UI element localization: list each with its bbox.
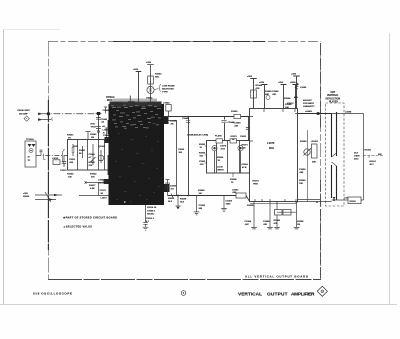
svg-text:C1080: C1080 bbox=[299, 169, 306, 171]
svg-text:R1041: R1041 bbox=[90, 133, 97, 136]
left bumps bbox=[105, 137, 110, 143]
page right edge bbox=[389, 33, 391, 305]
svg-text:R1B: R1B bbox=[91, 124, 96, 126]
ground drop x=196.5 bbox=[194, 196, 200, 215]
stub above ladder bbox=[86, 132, 91, 141]
connector box bbox=[25, 141, 36, 167]
svg-text:47K: 47K bbox=[256, 87, 260, 90]
arrowheads bbox=[38, 113, 43, 116]
drop x=176 bbox=[169, 121, 177, 196]
svg-text:C1052: C1052 bbox=[178, 149, 185, 151]
svg-text:R1059: R1059 bbox=[180, 199, 187, 201]
svg-text:1K: 1K bbox=[68, 138, 71, 140]
svg-text:MOD: MOD bbox=[107, 99, 113, 102]
svg-text:R120.1: R120.1 bbox=[370, 161, 378, 163]
svg-text:FOR BEST: FOR BEST bbox=[303, 103, 315, 105]
svg-text:+GAIN: +GAIN bbox=[305, 110, 312, 113]
svg-text:1M: 1M bbox=[171, 124, 174, 126]
svg-text:C1040: C1040 bbox=[103, 109, 110, 112]
svg-text:VERTICAL: VERTICAL bbox=[238, 291, 262, 297]
svg-text:R106B: R106B bbox=[247, 205, 254, 207]
svg-text:+225: +225 bbox=[133, 69, 139, 71]
svg-text:C1061: C1061 bbox=[232, 190, 239, 192]
svg-text:C1017: C1017 bbox=[100, 190, 107, 192]
feed x=138 bbox=[136, 72, 142, 105]
svg-text:R1B: R1B bbox=[74, 146, 79, 148]
svg-text:VERTICAL: VERTICAL bbox=[327, 94, 339, 97]
svg-text:R1060: R1060 bbox=[198, 190, 205, 192]
svg-text:SEL: SEL bbox=[155, 77, 160, 79]
svg-text:C1053: C1053 bbox=[199, 161, 206, 163]
page top edge bbox=[4, 29, 61, 31]
grid top boxes bbox=[216, 139, 223, 143]
svg-text:10K: 10K bbox=[285, 107, 289, 109]
svg-text:518 OSCILLOSCOPE: 518 OSCILLOSCOPE bbox=[33, 291, 72, 295]
wire: dash-dot mid bbox=[36, 155, 68, 157]
svg-text:ADJUST: ADJUST bbox=[303, 99, 312, 102]
board dashed border bbox=[48, 42, 321, 280]
svg-text:Q1043: Q1043 bbox=[99, 145, 106, 148]
svg-text:C1065: C1065 bbox=[263, 221, 270, 223]
svg-text:R1022: R1022 bbox=[67, 174, 74, 176]
svg-text:C1051: C1051 bbox=[240, 136, 247, 138]
svg-text:6.8K: 6.8K bbox=[90, 188, 95, 190]
svg-text:C1045: C1045 bbox=[101, 118, 108, 121]
svg-text:L1048 [DELAY LINE]: L1048 [DELAY LINE] bbox=[187, 134, 208, 137]
svg-text:C1021: C1021 bbox=[69, 159, 76, 161]
svg-text:R1040: R1040 bbox=[89, 161, 96, 164]
svg-text:10K: 10K bbox=[299, 183, 303, 185]
svg-text:DEFLECTION: DEFLECTION bbox=[326, 98, 341, 100]
svg-text:1000: 1000 bbox=[226, 204, 232, 206]
svg-text:R1043: R1043 bbox=[155, 73, 162, 76]
svg-text:LOW NOISE: LOW NOISE bbox=[162, 86, 175, 88]
feed x=150.5 with transistor bbox=[147, 65, 154, 105]
left border heavier mid segment bbox=[47, 100, 49, 250]
svg-text:C1049-1: C1049-1 bbox=[147, 210, 156, 213]
svg-text:+SIG: +SIG bbox=[23, 193, 28, 195]
svg-text:DLY: DLY bbox=[354, 153, 359, 155]
svg-text:R1021: R1021 bbox=[67, 135, 74, 137]
resistors in ladder bbox=[72, 144, 101, 165]
svg-text:C1044: C1044 bbox=[163, 102, 170, 105]
svg-text:+350: +350 bbox=[247, 76, 253, 78]
svg-text:R1091: R1091 bbox=[365, 150, 372, 152]
transistor nodes bbox=[212, 146, 217, 151]
svg-text:V1043: V1043 bbox=[146, 97, 153, 100]
svg-text:R1084: R1084 bbox=[285, 103, 292, 106]
right bumps bbox=[164, 117, 169, 124]
svg-text:SIG AMP: SIG AMP bbox=[19, 113, 28, 116]
svg-text:50H: 50H bbox=[269, 146, 274, 150]
svg-text:R105B: R105B bbox=[230, 179, 237, 181]
TP bracket left of ladder bbox=[63, 149, 65, 164]
svg-text:L1088: L1088 bbox=[345, 112, 352, 114]
ragged edge bumps bbox=[112, 102, 122, 105]
page bottom edge bbox=[0, 304, 397, 306]
svg-text:PLATE: PLATE bbox=[215, 135, 222, 138]
svg-text:47K: 47K bbox=[294, 96, 298, 99]
svg-text:TYPE: TYPE bbox=[162, 92, 168, 94]
svg-text:1M: 1M bbox=[199, 193, 202, 195]
page left edge bbox=[3, 30, 5, 305]
stub above grid bbox=[224, 117, 226, 141]
svg-text:ADJ: ADJ bbox=[354, 158, 359, 161]
below grid stub bbox=[232, 173, 234, 177]
pin ticks on box bbox=[250, 109, 298, 202]
right border darker segments bbox=[320, 43, 322, 130]
svg-text:R1054: R1054 bbox=[217, 156, 224, 159]
drops under big box bbox=[251, 202, 299, 229]
capacitor C1010 bbox=[62, 156, 66, 168]
drop x=248 through C1050 bbox=[248, 117, 250, 142]
svg-text:BROH: BROH bbox=[218, 169, 225, 171]
interior light speckles: top band remnants bbox=[111, 105, 161, 129]
svg-text:C104B: C104B bbox=[170, 120, 177, 123]
svg-text:47.B: 47.B bbox=[221, 147, 226, 150]
svg-text:+500: +500 bbox=[290, 82, 296, 84]
svg-text:C104B: C104B bbox=[182, 117, 189, 120]
stub +B near blob bbox=[105, 128, 108, 140]
svg-text:39K: 39K bbox=[312, 162, 316, 164]
svg-text:OUTPUT: OUTPUT bbox=[267, 291, 288, 297]
svg-text:R1082: R1082 bbox=[299, 180, 306, 182]
svg-text:1M (M): 1M (M) bbox=[147, 214, 154, 216]
reference diamond bbox=[24, 116, 29, 121]
svg-text:1M: 1M bbox=[297, 224, 300, 226]
svg-text:C1066: C1066 bbox=[272, 91, 279, 93]
svg-text:+350: +350 bbox=[291, 74, 297, 76]
top border darker mid segment bbox=[113, 41, 265, 43]
svg-text:C1040: C1040 bbox=[89, 153, 96, 156]
junction dot at border crossing bbox=[47, 112, 50, 115]
ground arrow drop x=178 bbox=[177, 195, 179, 197]
drop x=188 to bottom bus bbox=[188, 117, 190, 196]
svg-text:FROM: FROM bbox=[23, 196, 29, 198]
svg-text:C104B: C104B bbox=[228, 121, 235, 124]
svg-text:C1070: C1070 bbox=[220, 146, 227, 148]
svg-text:ALL VERTICAL OUTPUT BOARD: ALL VERTICAL OUTPUT BOARD bbox=[245, 275, 308, 279]
svg-text:R1075: R1075 bbox=[253, 181, 260, 183]
svg-text:R1017: R1017 bbox=[89, 185, 96, 187]
svg-text:CRT: CRT bbox=[331, 92, 336, 94]
svg-text:L1070: L1070 bbox=[267, 141, 275, 145]
svg-text:R1073: R1073 bbox=[242, 145, 249, 147]
svg-text:R1042: R1042 bbox=[90, 173, 97, 176]
svg-text:47.B: 47.B bbox=[242, 166, 247, 169]
wire: input dash-dot upper bbox=[42, 114, 94, 120]
svg-text:C1055: C1055 bbox=[170, 186, 177, 188]
svg-text:39K: 39K bbox=[378, 154, 382, 156]
svg-text:R1014 1K: R1014 1K bbox=[147, 206, 157, 209]
svg-text:AMPLIFIER: AMPLIFIER bbox=[291, 291, 315, 297]
svg-text:1M: 1M bbox=[91, 137, 94, 139]
svg-text:+225: +225 bbox=[259, 82, 265, 84]
svg-text:L1085: L1085 bbox=[300, 87, 307, 89]
svg-text:R1066: R1066 bbox=[297, 221, 304, 223]
svg-text:R1055: R1055 bbox=[168, 198, 175, 200]
stub entering blob top x=130.3 bbox=[129, 96, 131, 105]
svg-text:R1081: R1081 bbox=[312, 141, 319, 143]
svg-text:C1060: C1060 bbox=[199, 205, 206, 207]
svg-text:R1065: R1065 bbox=[274, 220, 281, 222]
svg-text:★PART OF STORED CIRCUIT BOARD: ★PART OF STORED CIRCUIT BOARD bbox=[63, 215, 117, 219]
svg-text:R1092: R1092 bbox=[350, 201, 357, 203]
svg-text:R1053: R1053 bbox=[199, 144, 206, 146]
svg-text:TP1B: TP1B bbox=[91, 126, 97, 128]
svg-text:GAIN: GAIN bbox=[354, 155, 360, 158]
svg-text:C1013-1: C1013-1 bbox=[146, 218, 155, 220]
svg-text:R1052: R1052 bbox=[231, 111, 238, 113]
svg-text:SELECTED: SELECTED bbox=[162, 89, 174, 91]
svg-text:FROM VERT: FROM VERT bbox=[18, 110, 31, 112]
svg-text:R1055: R1055 bbox=[199, 153, 206, 155]
svg-text:C1064: C1064 bbox=[242, 163, 249, 166]
svg-text:C1064: C1064 bbox=[245, 220, 252, 223]
svg-text:R1066: R1066 bbox=[284, 98, 291, 100]
svg-text:L10.B: L10.B bbox=[217, 167, 223, 169]
svg-text:LINEARITY: LINEARITY bbox=[303, 105, 315, 108]
svg-text:▲SELECTED VALUE: ▲SELECTED VALUE bbox=[63, 225, 92, 228]
svg-text:R1031: R1031 bbox=[79, 150, 86, 152]
svg-text:+350: +350 bbox=[146, 62, 152, 64]
ground drop x=224 bbox=[221, 196, 227, 212]
svg-text:20 V: 20 V bbox=[370, 164, 375, 166]
svg-text:27K: 27K bbox=[89, 165, 93, 167]
svg-text:R1070: R1070 bbox=[231, 136, 238, 138]
svg-text:C1050: C1050 bbox=[234, 123, 241, 125]
svg-text:+350: +350 bbox=[278, 82, 284, 84]
wire to CRT bottom bbox=[298, 200, 332, 202]
svg-text:C1010: C1010 bbox=[60, 170, 67, 172]
svg-text:L1017: L1017 bbox=[101, 198, 108, 200]
svg-text:TRIG: TRIG bbox=[253, 184, 258, 186]
svg-text:C1062: C1062 bbox=[226, 201, 233, 203]
svg-text:R1080: R1080 bbox=[300, 141, 307, 143]
